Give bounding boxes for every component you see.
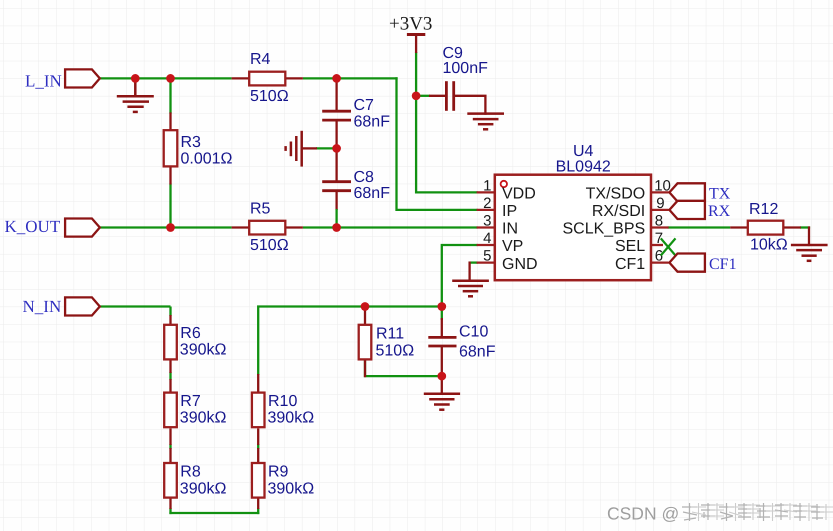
- svg-text:390kΩ: 390kΩ: [180, 342, 227, 359]
- wire R3 bottom: [169, 184, 171, 228]
- resistor R4: [249, 51, 288, 105]
- svg-text:9: 9: [656, 195, 664, 212]
- wire R7-R8 sliver: [169, 444, 171, 449]
- port CF1: [669, 254, 736, 273]
- svg-text:GND: GND: [502, 256, 538, 273]
- ground G1 under L_IN junction: [117, 78, 154, 112]
- svg-text:390kΩ: 390kΩ: [180, 409, 227, 426]
- svg-text:R8: R8: [180, 464, 201, 481]
- wire pin5 to gnd: [469, 261, 478, 263]
- svg-text:R10: R10: [268, 393, 297, 410]
- wire R6-R7 sliver: [169, 372, 171, 380]
- svg-text:390kΩ: 390kΩ: [268, 480, 315, 497]
- svg-text:510Ω: 510Ω: [250, 237, 289, 254]
- wire R9 leads: [257, 448, 259, 509]
- svg-text:R11: R11: [376, 326, 404, 343]
- wire mid ground lead: [302, 147, 317, 149]
- svg-text:390kΩ: 390kΩ: [180, 480, 227, 497]
- resistor R11: [359, 325, 414, 360]
- U4 pin numbers right: [654, 178, 671, 265]
- port RX: [669, 201, 730, 220]
- U4 pin numbers left: [483, 178, 491, 265]
- wire R5 leads: [232, 226, 303, 228]
- watermark CSDN: [607, 504, 679, 524]
- svg-text:BL0942: BL0942: [556, 159, 611, 176]
- ground G5 under C10: [424, 394, 460, 410]
- wire C7 top lead: [335, 78, 337, 111]
- ground G2 rotated at C7/C8 mid node: [286, 131, 302, 167]
- resistor R7: [164, 393, 226, 428]
- port K_OUT: [5, 217, 100, 237]
- svg-text:CSDN @: CSDN @: [607, 504, 679, 524]
- wire R12 right: [800, 226, 810, 228]
- svg-text:510Ω: 510Ω: [250, 88, 289, 105]
- capacitor C9: [443, 45, 489, 111]
- wire mid node to ground: [316, 147, 337, 149]
- port TX: [669, 183, 730, 202]
- svg-text:390kΩ: 390kΩ: [268, 409, 315, 426]
- resistor R5: [249, 200, 288, 254]
- wire N_IN row: [99, 305, 171, 307]
- U4 pin names right: [562, 186, 645, 273]
- svg-text:5: 5: [483, 248, 491, 265]
- wire R8 bottom to row: [169, 508, 171, 514]
- svg-text:K_OUT: K_OUT: [5, 217, 61, 236]
- svg-text:10kΩ: 10kΩ: [750, 237, 788, 254]
- svg-text:C7: C7: [354, 97, 375, 114]
- capacitor C7: [322, 97, 390, 130]
- svg-text:SCLK_BPS: SCLK_BPS: [562, 221, 645, 238]
- svg-text:U4: U4: [573, 143, 594, 160]
- svg-text:IP: IP: [502, 203, 517, 220]
- svg-text:C10: C10: [459, 324, 488, 341]
- no-connect X on pin 7 SEL: [661, 238, 676, 255]
- wire L_IN row: [99, 77, 232, 79]
- resistor R10: [252, 393, 314, 428]
- resistor R6: [164, 325, 226, 360]
- svg-text:R6: R6: [180, 325, 201, 342]
- wire R3 top: [169, 78, 171, 113]
- svg-text:VP: VP: [502, 238, 523, 255]
- svg-text:CF1: CF1: [615, 256, 645, 273]
- wire N_IN to R6: [169, 307, 171, 317]
- svg-text:N_IN: N_IN: [23, 297, 62, 316]
- wire vertical R4 out down to pin2 row: [397, 77, 478, 210]
- svg-text:68nF: 68nF: [354, 113, 391, 130]
- svg-text:L_IN: L_IN: [25, 72, 62, 91]
- wire VP down: [442, 245, 478, 320]
- svg-text:4: 4: [483, 230, 491, 247]
- wire C9 left lead green part: [416, 95, 430, 97]
- wire C8 bottom lead: [335, 191, 337, 210]
- svg-text:0.001Ω: 0.001Ω: [181, 150, 233, 167]
- svg-text:R4: R4: [250, 51, 271, 68]
- junction dots: [131, 74, 446, 380]
- wire R10 top to junction row: [258, 307, 443, 376]
- wire pin5 ground stub: [468, 262, 470, 282]
- wire R11 bottom row: [365, 360, 442, 376]
- svg-text:CF1: CF1: [709, 256, 737, 273]
- wire R12 leads: [730, 226, 801, 228]
- capacitor C8: [322, 169, 390, 202]
- svg-text:RX: RX: [708, 203, 731, 220]
- resistor R8: [164, 463, 226, 498]
- wire C10 ground stub: [441, 376, 443, 395]
- wire R4 to vertical: [303, 77, 398, 79]
- svg-text:TX/SDO: TX/SDO: [586, 186, 646, 203]
- wire C10 leads: [441, 318, 443, 376]
- wire C7-C8 mid leads: [335, 120, 337, 182]
- op IC U4 BL0942 body: [495, 143, 651, 280]
- wire R8 leads: [169, 448, 171, 509]
- svg-text:R12: R12: [749, 201, 778, 218]
- svg-text:8: 8: [655, 213, 663, 230]
- svg-text:510Ω: 510Ω: [376, 342, 415, 359]
- wire R6 leads: [169, 315, 171, 373]
- svg-text:68nF: 68nF: [459, 343, 496, 360]
- power +3V3 symbol: [389, 14, 432, 53]
- svg-text:1: 1: [483, 178, 491, 195]
- svg-text:68nF: 68nF: [354, 185, 391, 202]
- pin stubs right of U4: [650, 192, 669, 262]
- svg-text:C8: C8: [354, 169, 375, 186]
- watermark CJK strokes: [682, 503, 824, 521]
- watermark CJK ghost copy: [691, 503, 833, 521]
- wire R9 bottom: [257, 508, 259, 514]
- svg-text:RX/SDI: RX/SDI: [592, 203, 645, 220]
- port N_IN: [23, 297, 100, 316]
- wire C9 leads: [429, 96, 485, 115]
- svg-text:+3V3: +3V3: [389, 14, 432, 35]
- resistor R3: [164, 130, 233, 167]
- svg-text:IN: IN: [502, 221, 518, 238]
- wire R10 leads: [257, 374, 259, 445]
- svg-text:100nF: 100nF: [443, 60, 489, 77]
- wire R7 leads: [169, 379, 171, 445]
- wire K_OUT row left: [99, 226, 232, 228]
- wire R11 leads: [364, 307, 366, 378]
- wire K_OUT row right to pin3: [303, 226, 478, 228]
- svg-text:2: 2: [483, 195, 491, 212]
- ground G4 under pin5 GND: [452, 281, 489, 297]
- svg-text:3: 3: [483, 213, 491, 230]
- svg-text:R7: R7: [180, 393, 201, 410]
- resistor R9: [252, 463, 314, 498]
- svg-text:6: 6: [655, 248, 663, 265]
- svg-text:TX: TX: [709, 186, 731, 203]
- ground G3 under C9: [467, 114, 504, 130]
- svg-text:SEL: SEL: [615, 238, 645, 255]
- resistor R12: [748, 201, 788, 254]
- wire +3V3 rail down to pin1: [416, 52, 478, 192]
- wire pin8 to R12: [668, 226, 731, 228]
- wire R9-R10 sliver: [257, 444, 259, 449]
- wire C8 bottom green: [335, 209, 337, 228]
- wire bottom row R8-R9: [169, 512, 259, 514]
- capacitor C10: [428, 324, 495, 361]
- svg-text:R3: R3: [181, 134, 202, 151]
- pin stubs left of U4: [477, 192, 495, 262]
- svg-text:VDD: VDD: [502, 186, 536, 203]
- U4 pin names left: [502, 186, 538, 273]
- svg-text:R9: R9: [268, 464, 289, 481]
- wire R4 leads: [232, 77, 303, 79]
- port L_IN: [25, 69, 100, 90]
- svg-text:R5: R5: [250, 200, 271, 217]
- wire R3 leads: [169, 112, 171, 184]
- ground G6 under R12: [791, 245, 828, 261]
- wire R12 ground stub: [808, 226, 810, 246]
